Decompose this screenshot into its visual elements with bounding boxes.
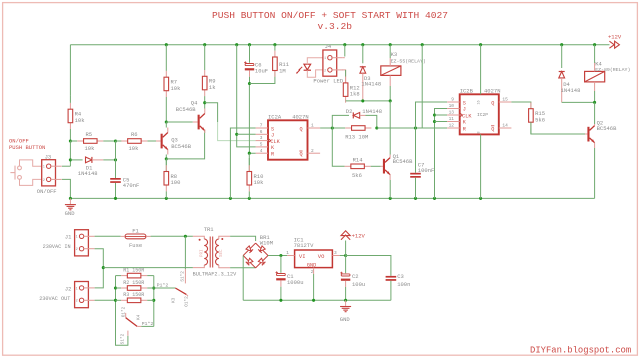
svg-text:K3: K3 <box>171 297 176 303</box>
wire +12 to C3 <box>346 256 391 276</box>
node K4 bottom dot <box>593 101 596 104</box>
svg-text:+12V: +12V <box>352 232 366 239</box>
wire Q3-emitter R8 <box>165 159 167 172</box>
node K3 bottom dot <box>389 99 392 102</box>
svg-text:2: 2 <box>76 299 78 303</box>
svg-text:VO: VO <box>318 253 325 260</box>
svg-text:S: S <box>271 126 274 132</box>
wire R5R6 node <box>103 140 127 142</box>
svg-text:D2: D2 <box>346 108 353 115</box>
wire bridge minus to rail <box>242 256 244 301</box>
node dots on GND rail <box>69 197 72 200</box>
svg-text:2: 2 <box>43 178 45 182</box>
svg-text:1M: 1M <box>279 68 286 75</box>
svg-text:Q: Q <box>300 152 303 158</box>
wire D4 top <box>561 45 563 68</box>
resistor R10 <box>248 158 250 165</box>
resistor R1 <box>116 275 122 277</box>
svg-text:100u: 100u <box>352 281 365 288</box>
node C5 top dot <box>114 158 117 161</box>
svg-text:DIYFan.blogspot.com: DIYFan.blogspot.com <box>530 346 631 356</box>
wire Q4-collector to CLK corner <box>205 103 218 122</box>
power +12V arrow <box>609 41 614 48</box>
node bank dots <box>114 286 117 289</box>
resistor R6 <box>116 140 122 142</box>
wire R15 to Q2 <box>531 122 585 134</box>
capacitor C2 <box>341 274 350 276</box>
svg-text:3: 3 <box>260 135 263 141</box>
wire bank right rail <box>153 276 155 327</box>
svg-text:10k: 10k <box>254 179 265 186</box>
svg-text:1: 1 <box>311 123 314 129</box>
wire +12 pullup branch <box>421 45 423 128</box>
wire node to Q2 collector <box>594 102 596 124</box>
svg-text:GND: GND <box>307 263 316 269</box>
svg-text:R13 10M: R13 10M <box>345 133 368 140</box>
resistor R4 <box>69 96 71 103</box>
diode D3 <box>360 67 366 73</box>
svg-text:10: 10 <box>449 103 455 109</box>
svg-text:4027N: 4027N <box>292 114 309 121</box>
svg-text:1: 1 <box>76 235 78 239</box>
wire C6-R11 link <box>250 71 275 84</box>
svg-text:PUSH BUTTON: PUSH BUTTON <box>9 144 45 151</box>
wire R pin4 net <box>249 84 255 154</box>
ground GND upper <box>69 198 71 204</box>
connector J4 <box>323 50 337 76</box>
capacitor C6 <box>245 64 254 66</box>
transistor Q3 <box>156 140 161 142</box>
wire fuse to TR1 <box>151 235 193 237</box>
svg-text:R6: R6 <box>131 131 138 138</box>
svg-text:6: 6 <box>260 129 263 135</box>
svg-text:Q: Q <box>491 100 494 106</box>
resistor R3 <box>116 299 122 301</box>
svg-text:CLK: CLK <box>462 113 472 119</box>
svg-text:R2 150R: R2 150R <box>123 280 144 286</box>
resistor R11 <box>274 45 276 51</box>
svg-text:100: 100 <box>171 179 181 186</box>
svg-text:+12V: +12V <box>608 34 622 41</box>
IC2A pin stubs <box>256 127 268 129</box>
wire TR1 sec top to bridge <box>230 236 256 241</box>
resistor R7 <box>165 45 167 71</box>
svg-text:1k8: 1k8 <box>350 91 360 98</box>
capacitor C5 <box>110 178 121 180</box>
svg-text:7812TV: 7812TV <box>294 242 315 249</box>
wire R14 branch <box>332 128 344 166</box>
svg-text:BULTRAF2.3_12V: BULTRAF2.3_12V <box>193 272 237 278</box>
transistor Q1 <box>381 165 383 167</box>
svg-text:1: 1 <box>43 165 45 169</box>
wire J4 pin1 to rail <box>344 45 346 57</box>
svg-text:3: 3 <box>334 250 337 256</box>
node R pin4 dot <box>248 152 251 155</box>
svg-text:J2: J2 <box>65 285 72 292</box>
svg-text:R: R <box>271 152 274 158</box>
svg-text:10k: 10k <box>75 117 86 124</box>
connector J2 <box>75 282 89 308</box>
relay contact K4 <box>125 313 127 318</box>
svg-text:BC546B: BC546B <box>393 158 414 165</box>
svg-text:J: J <box>271 133 274 139</box>
capacitor C3 <box>386 276 397 278</box>
wire VO to +12 <box>340 255 346 257</box>
wire PSU gnd rail <box>243 299 391 301</box>
svg-text:v.3.2b: v.3.2b <box>318 21 353 32</box>
wire Q net to IC2B <box>377 127 447 129</box>
node raw dot <box>279 254 282 257</box>
IC2B power pins <box>480 45 482 95</box>
wire +12V to R4 <box>69 45 71 96</box>
svg-text:W10M: W10M <box>260 240 273 247</box>
IC2B pin stubs <box>447 101 460 103</box>
wire K2 stub <box>435 121 448 123</box>
svg-text:Power LED: Power LED <box>313 78 343 85</box>
svg-text:Q: Q <box>491 126 494 132</box>
wire +12V rail <box>70 44 609 46</box>
transistor Q4 <box>193 121 198 123</box>
svg-text:CLK: CLK <box>270 139 280 145</box>
wire D1 to C5 node <box>103 159 115 161</box>
power +12V arrow PSU <box>345 241 347 256</box>
wire bank left rail <box>116 276 128 346</box>
resistor R8 <box>165 159 167 165</box>
IC IC2A box <box>268 120 308 159</box>
relay K4 coil <box>585 71 605 82</box>
wire C2 column <box>345 256 347 274</box>
capacitor C7 <box>410 173 421 175</box>
svg-text:K4: K4 <box>595 61 602 68</box>
wire Q1 output net <box>320 127 345 129</box>
svg-text:15: 15 <box>502 97 508 103</box>
svg-text:F1: F1 <box>132 227 139 234</box>
svg-text:GND: GND <box>65 210 76 217</box>
wire S branch <box>416 102 448 128</box>
svg-text:R14: R14 <box>353 157 364 164</box>
ground GND PSU <box>345 300 347 306</box>
fuse F1 <box>125 234 146 239</box>
wire D4-K4 node <box>562 101 595 103</box>
svg-text:P1*2: P1*2 <box>157 282 169 288</box>
svg-text:5k6: 5k6 <box>352 172 362 179</box>
svg-text:8: 8 <box>477 131 481 133</box>
svg-text:J4: J4 <box>325 43 332 50</box>
wire J1 live to fuse <box>95 235 121 237</box>
node neutral dot <box>102 266 105 269</box>
svg-text:R3 150R: R3 150R <box>123 292 144 298</box>
svg-text:14: 14 <box>502 123 508 129</box>
svg-text:TR1: TR1 <box>204 226 215 233</box>
svg-text:16: 16 <box>477 100 481 104</box>
wire C5 column <box>115 141 117 178</box>
svg-text:J1: J1 <box>65 234 72 241</box>
svg-text:Fuse: Fuse <box>129 242 142 249</box>
node R5-R6 dot <box>114 139 117 142</box>
wire R10 column <box>248 153 250 171</box>
wire S pin7 net <box>230 128 255 198</box>
svg-text:R1 150R: R1 150R <box>123 268 144 274</box>
node PSU rail dots <box>279 299 282 302</box>
wire CLK2 stub <box>435 114 448 116</box>
svg-text:O1*2: O1*2 <box>122 306 127 317</box>
wire C7 column <box>415 128 417 173</box>
svg-text:2: 2 <box>76 247 78 251</box>
wire TR1 sec bottom to bridge <box>230 267 256 269</box>
wire bridge plus to IC1 <box>268 255 287 257</box>
node Q4 collector dot <box>203 101 206 104</box>
wire J4 pin2 to R12 <box>342 70 346 83</box>
diode D2 <box>353 113 359 119</box>
node D1 left dot <box>69 158 72 161</box>
wire JK +12 net <box>237 45 256 147</box>
node Q3 emitter dot <box>165 157 168 160</box>
node S branch dot <box>414 126 417 129</box>
svg-text:BC546B: BC546B <box>176 106 197 113</box>
wire IC1 gnd <box>313 274 315 300</box>
wire node to Q1 collector <box>389 101 391 155</box>
svg-text:10k: 10k <box>171 85 182 92</box>
transistor Q2 <box>585 133 587 135</box>
wire C6 top <box>249 45 251 63</box>
wire C1 column <box>280 256 282 273</box>
svg-text:1: 1 <box>286 250 289 256</box>
svg-text:IC2B: IC2B <box>460 88 474 95</box>
svg-text:EZ-89(RELAY): EZ-89(RELAY) <box>595 67 630 73</box>
diode D4 <box>559 72 565 78</box>
resistor R5 <box>70 140 77 142</box>
svg-text:IC2A: IC2A <box>268 114 282 121</box>
node CLK2 dot <box>433 113 436 116</box>
push button S1 <box>18 166 22 170</box>
resistor R12 <box>345 70 347 77</box>
svg-text:2: 2 <box>311 148 314 154</box>
svg-text:O1*2: O1*2 <box>184 296 189 307</box>
resistor R9 <box>204 45 206 70</box>
svg-text:K4: K4 <box>136 314 141 320</box>
node dots on +12V rail <box>165 43 168 46</box>
svg-text:EZ-55(RELAY): EZ-55(RELAY) <box>391 59 426 65</box>
svg-text:P1*2: P1*2 <box>142 321 154 327</box>
svg-text:GND: GND <box>340 316 351 323</box>
svg-text:VI: VI <box>299 253 306 260</box>
svg-text:1N4148: 1N4148 <box>361 81 381 88</box>
relay K3 coil <box>381 66 401 76</box>
node Q3 collector dot <box>165 120 168 123</box>
svg-text:470nF: 470nF <box>123 182 140 189</box>
node J pin6 dot <box>235 133 238 136</box>
wire D3 top <box>362 45 364 64</box>
svg-text:K3: K3 <box>391 51 398 58</box>
resistor R13 <box>344 127 346 129</box>
svg-text:11: 11 <box>449 116 455 122</box>
svg-text:10k: 10k <box>129 145 140 152</box>
resistor R15 <box>530 101 532 103</box>
connector J3 <box>42 160 56 186</box>
svg-text:10k: 10k <box>85 145 96 152</box>
svg-text:4: 4 <box>260 148 263 154</box>
wire LED to J4 <box>307 58 323 64</box>
svg-text:1N4148: 1N4148 <box>362 108 382 115</box>
wire Q2 base net <box>511 102 531 109</box>
svg-text:1N4148: 1N4148 <box>78 170 98 177</box>
svg-text:J: J <box>463 107 466 113</box>
LED D5 <box>304 64 311 70</box>
svg-text:IC2P: IC2P <box>477 112 488 118</box>
svg-text:S1*2: S1*2 <box>180 271 185 282</box>
resistor R14 <box>343 165 346 167</box>
node +12 out dot <box>344 254 347 257</box>
transformer TR1 <box>193 236 204 239</box>
svg-text:100n: 100n <box>397 281 410 288</box>
wire Q3-collector to Q4-base <box>166 121 193 123</box>
svg-text:4027N: 4027N <box>484 88 501 95</box>
svg-text:SEC: SEC <box>220 249 224 257</box>
relay contact K3 <box>184 236 186 269</box>
svg-text:BC546B: BC546B <box>597 125 618 132</box>
wire CLK net faded <box>218 122 256 141</box>
svg-text:PRI: PRI <box>201 249 205 257</box>
svg-text:100nF: 100nF <box>418 167 435 174</box>
svg-text:C3: C3 <box>397 273 404 280</box>
IC IC2B box <box>460 94 499 134</box>
svg-text:1000u: 1000u <box>287 279 304 286</box>
svg-text:7: 7 <box>260 123 263 129</box>
node C6 bottom dot <box>248 82 251 85</box>
svg-text:ON/OFF: ON/OFF <box>37 188 57 195</box>
regulator IC1 <box>295 250 333 268</box>
wire K3 node line <box>346 100 391 102</box>
node D2R13 right dot <box>375 126 378 129</box>
wire D2 branch left <box>332 115 349 128</box>
svg-text:9: 9 <box>451 97 454 103</box>
node R5 left dot <box>69 139 72 142</box>
svg-text:230VAC IN: 230VAC IN <box>43 244 71 250</box>
svg-text:S1*2: S1*2 <box>121 333 126 344</box>
wire J2 pin2 to bank <box>95 299 116 301</box>
wire J pin6 <box>237 133 256 135</box>
svg-text:1: 1 <box>324 56 326 60</box>
svg-text:5: 5 <box>260 142 263 148</box>
svg-text:1N4148: 1N4148 <box>561 87 581 94</box>
wire neutral to TR1 <box>103 267 193 269</box>
svg-text:12: 12 <box>449 123 455 129</box>
wire J3 pin1 to node <box>62 165 71 167</box>
svg-text:1k: 1k <box>209 84 216 91</box>
node D2R13 left dot <box>331 126 334 129</box>
diode D1 <box>70 159 82 161</box>
svg-text:R5: R5 <box>86 131 93 138</box>
capacitor C1 <box>277 274 286 276</box>
svg-text:J3: J3 <box>45 154 52 161</box>
wire J3 pin2 to GND <box>62 179 71 198</box>
node live dot <box>184 235 187 238</box>
svg-text:13: 13 <box>449 110 455 116</box>
svg-text:PUSH BUTTON ON/OFF + SOFT STAR: PUSH BUTTON ON/OFF + SOFT START WITH 402… <box>212 10 448 21</box>
svg-text:230VAC OUT: 230VAC OUT <box>39 296 70 302</box>
svg-text:1: 1 <box>76 286 78 290</box>
svg-text:S: S <box>463 100 466 106</box>
connector J1 <box>75 230 89 256</box>
svg-text:Q: Q <box>300 126 303 132</box>
wire neutral <box>95 249 104 288</box>
wire Q4 emitter net <box>166 130 204 159</box>
svg-text:BC546B: BC546B <box>171 143 192 150</box>
node K2 dot <box>433 120 436 123</box>
svg-text:5k6: 5k6 <box>535 116 545 123</box>
wire R5-D1 vertical <box>69 141 71 166</box>
svg-text:R: R <box>463 126 466 132</box>
bridge rectifier BR1 <box>256 243 268 255</box>
node D3 anode dot <box>361 99 364 102</box>
wire J-CLK-K gnd net <box>435 109 448 199</box>
svg-text:C2: C2 <box>352 273 359 280</box>
wire GND rail <box>70 197 594 199</box>
svg-text:2: 2 <box>324 68 326 72</box>
resistor R2 <box>116 287 122 289</box>
wire D2 branch right <box>366 115 377 128</box>
svg-text:10uF: 10uF <box>255 67 268 74</box>
